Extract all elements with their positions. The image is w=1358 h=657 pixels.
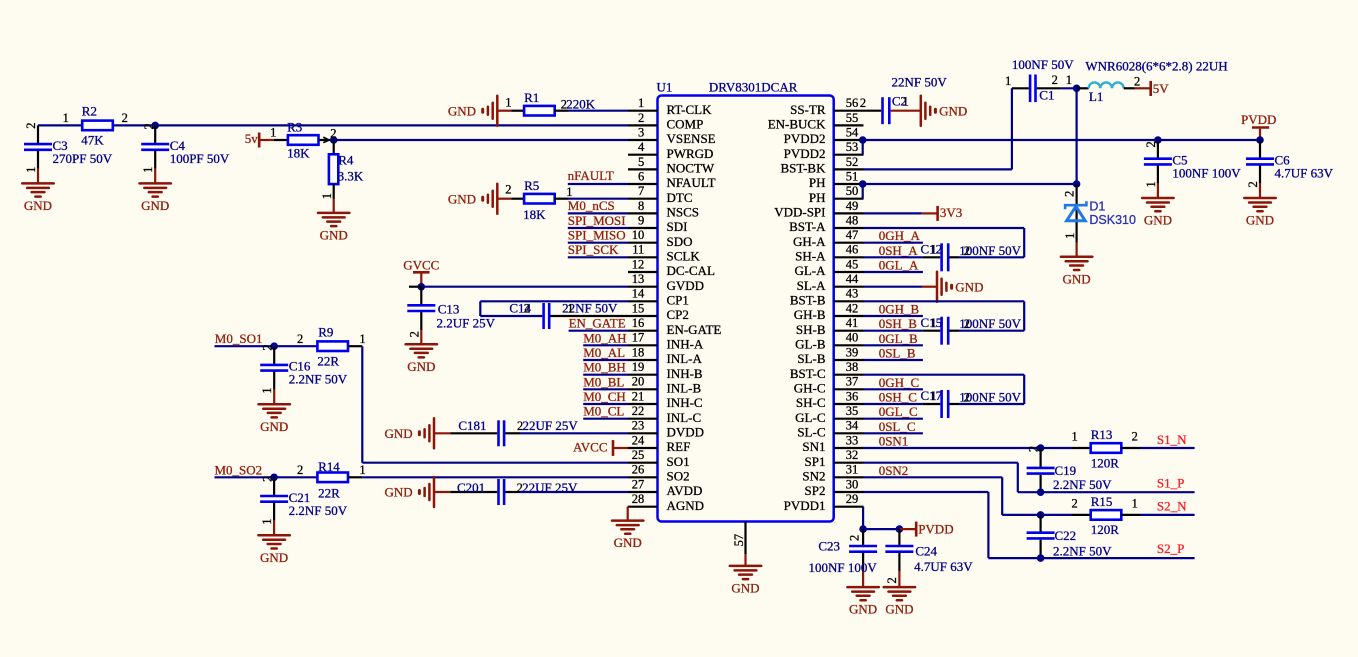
net label 0SN1 (879, 434, 909, 449)
svg-text:1: 1 (1066, 73, 1072, 87)
wire (215, 476, 318, 478)
svg-text:VSENSE: VSENSE (667, 131, 716, 146)
net label 0GL_B (879, 331, 918, 346)
capacitor C201 (434, 479, 578, 505)
svg-text:BST-BK: BST-BK (780, 161, 826, 176)
svg-text:13: 13 (632, 272, 645, 286)
net label M0_nCS (568, 198, 615, 213)
capacitor C2 (860, 75, 947, 125)
svg-text:PWRGD: PWRGD (667, 146, 714, 161)
capacitor C13 (407, 287, 495, 345)
wire (864, 403, 923, 405)
svg-text:49: 49 (846, 199, 859, 213)
net label 0GL_C (879, 404, 918, 419)
wire (569, 330, 628, 332)
ground (922, 272, 983, 302)
svg-text:22UF 25V: 22UF 25V (523, 418, 579, 433)
svg-text:3: 3 (638, 125, 644, 139)
svg-text:M0_BH: M0_BH (583, 360, 626, 375)
svg-text:2: 2 (505, 183, 511, 197)
resistor R15 (1072, 494, 1140, 537)
svg-text:2: 2 (24, 122, 38, 128)
wire (568, 183, 628, 185)
svg-text:0SL_B: 0SL_B (879, 346, 916, 361)
wire (479, 301, 481, 316)
svg-text:DTC: DTC (667, 190, 693, 205)
svg-text:NSCS: NSCS (667, 205, 700, 220)
net label 0SN2 (879, 463, 909, 478)
svg-text:R2: R2 (82, 104, 97, 119)
svg-text:SO1: SO1 (667, 454, 690, 469)
ground (385, 477, 434, 507)
svg-text:20: 20 (632, 375, 645, 389)
svg-text:3.3K: 3.3K (338, 168, 364, 183)
svg-text:0SH_C: 0SH_C (879, 390, 917, 405)
svg-text:1: 1 (24, 167, 38, 173)
net label 0SH_A (879, 243, 919, 258)
svg-text:GND: GND (24, 198, 52, 213)
svg-text:16: 16 (632, 316, 645, 330)
svg-text:GL-B: GL-B (795, 337, 826, 352)
svg-text:M0_CH: M0_CH (583, 389, 626, 404)
capacitor C5 (1142, 140, 1241, 228)
svg-text:PVDD1: PVDD1 (784, 498, 826, 513)
svg-text:2: 2 (261, 344, 275, 350)
svg-text:5: 5 (638, 155, 644, 169)
resistor R5 (497, 178, 572, 222)
svg-text:52: 52 (846, 155, 859, 169)
svg-text:1: 1 (63, 111, 69, 125)
svg-text:REF: REF (667, 439, 691, 454)
wire (1140, 447, 1195, 449)
svg-text:SS-TR: SS-TR (790, 102, 826, 117)
svg-text:INL-A: INL-A (667, 351, 703, 366)
svg-text:9: 9 (638, 213, 644, 227)
wire (583, 359, 628, 361)
svg-text:1: 1 (359, 463, 365, 477)
capacitor C6 (1244, 140, 1333, 228)
svg-text:SCLK: SCLK (667, 249, 701, 264)
svg-text:GND: GND (407, 359, 435, 374)
svg-text:2: 2 (1027, 446, 1041, 452)
ground (448, 96, 497, 126)
wire (864, 300, 1025, 302)
svg-text:22: 22 (632, 404, 645, 418)
svg-text:1: 1 (320, 193, 334, 199)
svg-text:33: 33 (846, 433, 859, 447)
wire (215, 345, 318, 347)
svg-text:CP1: CP1 (667, 293, 689, 308)
svg-text:NOCTW: NOCTW (667, 161, 715, 176)
capacitor C14 (509, 301, 628, 329)
svg-text:GND: GND (448, 103, 476, 118)
svg-text:SH-A: SH-A (795, 249, 826, 264)
svg-text:SL-B: SL-B (797, 351, 826, 366)
svg-text:24: 24 (632, 433, 645, 447)
svg-text:1: 1 (359, 332, 365, 346)
svg-text:2.2NF 50V: 2.2NF 50V (289, 503, 348, 518)
svg-text:0SL_C: 0SL_C (879, 419, 916, 434)
wire (864, 492, 1195, 558)
svg-text:0GL_B: 0GL_B (879, 331, 918, 346)
net label SPI_SCK (568, 242, 619, 257)
wire (863, 139, 1260, 141)
svg-text:L1: L1 (1089, 89, 1103, 104)
ground (318, 213, 349, 243)
svg-text:1: 1 (1063, 233, 1077, 239)
svg-text:25: 25 (632, 448, 645, 462)
svg-text:2: 2 (1246, 181, 1260, 187)
svg-text:EN-BUCK: EN-BUCK (768, 117, 826, 132)
svg-text:1: 1 (1005, 74, 1011, 88)
wire (362, 476, 628, 478)
svg-text:GL-A: GL-A (794, 263, 826, 278)
svg-text:1: 1 (566, 185, 572, 199)
wire (627, 507, 629, 521)
wire (480, 315, 542, 317)
wire (583, 418, 628, 420)
svg-text:100PF 50V: 100PF 50V (170, 151, 230, 166)
svg-text:48: 48 (846, 213, 859, 227)
wire (568, 256, 628, 258)
svg-text:1: 1 (141, 167, 155, 173)
svg-text:18: 18 (632, 345, 645, 359)
resistor R9 (297, 324, 366, 368)
net label M0_CL (583, 404, 624, 419)
wire (1140, 514, 1195, 516)
wire (583, 344, 628, 346)
capacitor C17 (921, 388, 1025, 418)
svg-text:44: 44 (846, 272, 859, 286)
svg-text:10: 10 (632, 228, 645, 242)
net label M0_BH (583, 360, 626, 375)
svg-text:47: 47 (846, 228, 859, 242)
svg-text:GND: GND (448, 191, 476, 206)
svg-text:GND: GND (614, 535, 642, 550)
wire (864, 330, 923, 332)
junction (151, 122, 159, 130)
svg-text:12: 12 (632, 257, 645, 271)
svg-text:54: 54 (846, 125, 859, 139)
junction (859, 180, 867, 188)
capacitor C1 (1005, 57, 1074, 102)
svg-text:0SN1: 0SN1 (879, 434, 909, 449)
svg-text:37: 37 (846, 375, 859, 389)
svg-text:C13: C13 (438, 302, 460, 317)
capacitor C19 (1027, 448, 1113, 492)
svg-text:SDI: SDI (667, 219, 688, 234)
svg-text:VDD-SPI: VDD-SPI (774, 205, 825, 220)
ic U1 DRV8301DCAR (628, 80, 864, 522)
wire (864, 477, 1073, 515)
svg-text:2: 2 (964, 391, 970, 405)
svg-text:U1: U1 (657, 80, 673, 95)
svg-text:AVCC: AVCC (573, 440, 607, 455)
wire (864, 463, 1195, 493)
svg-text:COMP: COMP (667, 117, 704, 132)
ground (921, 96, 967, 126)
svg-text:40: 40 (846, 331, 859, 345)
svg-text:27: 27 (632, 477, 645, 491)
svg-text:M0_AH: M0_AH (583, 330, 626, 345)
svg-text:SL-A: SL-A (797, 278, 827, 293)
wire (863, 507, 899, 529)
svg-text:PVDD2: PVDD2 (784, 131, 826, 146)
svg-text:SPI_MISO: SPI_MISO (568, 228, 626, 243)
svg-text:2: 2 (964, 244, 970, 258)
svg-text:GND: GND (141, 198, 169, 213)
wire (569, 110, 628, 112)
svg-text:R13: R13 (1091, 427, 1113, 442)
ground (730, 566, 761, 596)
resistor R13 (1072, 427, 1140, 471)
svg-text:30: 30 (846, 477, 859, 491)
wire (583, 374, 628, 376)
svg-text:GND: GND (885, 602, 913, 617)
capacitor C24 (885, 529, 973, 587)
ground (385, 418, 434, 448)
wire (864, 256, 923, 258)
svg-text:0GH_A: 0GH_A (879, 228, 921, 243)
svg-text:1: 1 (505, 96, 511, 110)
svg-text:1: 1 (270, 125, 276, 139)
net label EN_GATE (569, 316, 626, 331)
svg-text:S1_N: S1_N (1157, 432, 1187, 447)
svg-text:1: 1 (1072, 429, 1078, 443)
svg-text:GND: GND (385, 485, 413, 500)
svg-text:8: 8 (638, 199, 644, 213)
wire (862, 140, 864, 155)
svg-text:SO2: SO2 (667, 469, 690, 484)
net label M0_AL (583, 345, 625, 360)
svg-text:EN-GATE: EN-GATE (667, 322, 722, 337)
resistor R4 (320, 140, 364, 213)
wire (1023, 301, 1025, 330)
wire (864, 286, 923, 288)
svg-text:1: 1 (260, 519, 274, 525)
net label M0_SO1 (215, 331, 263, 346)
net label M0_CH (583, 389, 626, 404)
net label SPI_MOSI (568, 213, 626, 228)
svg-text:C19: C19 (1055, 463, 1077, 478)
svg-text:2: 2 (297, 332, 303, 346)
wire (480, 300, 628, 302)
svg-text:1: 1 (903, 95, 909, 109)
svg-text:120R: 120R (1091, 456, 1120, 471)
power port GVCC (403, 257, 439, 287)
svg-text:BST-A: BST-A (789, 219, 826, 234)
svg-text:120R: 120R (1091, 522, 1120, 537)
svg-text:0GL_C: 0GL_C (879, 404, 918, 419)
svg-text:S1_P: S1_P (1157, 476, 1184, 491)
wire (864, 271, 923, 273)
junction (1037, 554, 1045, 562)
junction (1144, 136, 1162, 147)
svg-text:31: 31 (846, 463, 859, 477)
svg-text:M0_nCS: M0_nCS (568, 198, 615, 213)
svg-text:41: 41 (846, 316, 859, 330)
svg-text:4.7UF 63V: 4.7UF 63V (1275, 166, 1334, 181)
net label M0_BL (583, 374, 624, 389)
wire (864, 242, 923, 244)
wire (864, 418, 923, 420)
svg-text:INH-C: INH-C (667, 395, 703, 410)
svg-text:C22: C22 (1055, 528, 1077, 543)
svg-text:22R: 22R (318, 486, 340, 501)
svg-text:GH-B: GH-B (794, 307, 826, 322)
wire (864, 359, 923, 361)
svg-text:1: 1 (638, 96, 644, 110)
svg-text:220K: 220K (566, 97, 596, 112)
capacitor C16 (259, 346, 348, 434)
svg-text:14: 14 (632, 287, 645, 301)
wire (864, 344, 923, 346)
svg-text:7: 7 (638, 184, 644, 198)
svg-text:GND: GND (955, 279, 983, 294)
svg-text:INH-B: INH-B (667, 366, 703, 381)
svg-text:0SH_A: 0SH_A (879, 243, 919, 258)
svg-text:R14: R14 (318, 459, 340, 474)
net label S1_P (1157, 476, 1184, 491)
svg-text:0SN2: 0SN2 (879, 463, 909, 478)
diode D1 DSK310 (1063, 184, 1136, 257)
net label 0SL_C (879, 419, 916, 434)
svg-text:0SH_B: 0SH_B (879, 316, 918, 331)
capacitor C181 (434, 418, 578, 446)
svg-text:S2_N: S2_N (1157, 498, 1187, 513)
wire (864, 212, 922, 214)
svg-text:PH: PH (809, 175, 826, 190)
svg-text:R3: R3 (287, 119, 302, 134)
svg-text:32: 32 (846, 448, 859, 462)
svg-text:4.7UF 63V: 4.7UF 63V (914, 559, 973, 574)
svg-text:SL-C: SL-C (797, 425, 825, 440)
net label 0GH_A (879, 228, 921, 243)
wire (568, 227, 628, 229)
svg-text:M0_SO2: M0_SO2 (215, 462, 263, 477)
svg-text:22NF 50V: 22NF 50V (892, 75, 948, 90)
capacitor C3 (22, 122, 112, 213)
svg-text:1: 1 (931, 243, 937, 257)
ground (1061, 257, 1092, 287)
net label S1_N (1157, 432, 1187, 447)
svg-text:17: 17 (632, 331, 645, 345)
svg-text:R4: R4 (338, 152, 354, 167)
svg-text:28: 28 (632, 492, 645, 506)
wire (1023, 375, 1025, 404)
svg-text:2: 2 (860, 96, 866, 110)
svg-text:2: 2 (1144, 141, 1158, 147)
svg-text:GVDD: GVDD (667, 278, 705, 293)
svg-text:RT-CLK: RT-CLK (667, 102, 713, 117)
junction (418, 283, 426, 291)
svg-text:2: 2 (1052, 73, 1058, 87)
wire (520, 432, 628, 434)
wire (862, 184, 864, 199)
net label 0GH_B (879, 302, 920, 317)
svg-text:SPI_SCK: SPI_SCK (568, 242, 619, 257)
net label 0SH_B (879, 316, 918, 331)
svg-text:PVDD: PVDD (918, 522, 953, 537)
svg-text:GVCC: GVCC (403, 257, 439, 272)
net label M0_SO2 (215, 462, 263, 477)
svg-text:GND: GND (385, 426, 413, 441)
wire (583, 388, 628, 390)
junction (1037, 511, 1045, 519)
svg-text:PH: PH (809, 190, 826, 205)
svg-text:21: 21 (632, 389, 645, 403)
svg-text:AGND: AGND (667, 498, 705, 513)
svg-text:DSK310: DSK310 (1089, 213, 1136, 227)
svg-text:GND: GND (1063, 271, 1091, 286)
svg-text:29: 29 (846, 492, 859, 506)
svg-text:26: 26 (632, 463, 645, 477)
svg-text:C1: C1 (1039, 87, 1054, 102)
net label S2_P (1157, 541, 1184, 556)
svg-text:2: 2 (1134, 74, 1140, 88)
svg-text:1: 1 (931, 316, 937, 330)
svg-text:51: 51 (846, 169, 859, 183)
svg-text:270PF 50V: 270PF 50V (53, 151, 113, 166)
ground (406, 344, 437, 374)
resistor R1 (497, 90, 596, 116)
svg-text:SN2: SN2 (802, 469, 825, 484)
junction (1066, 73, 1081, 92)
svg-text:SP1: SP1 (805, 454, 826, 469)
ground (448, 184, 497, 214)
svg-text:GH-A: GH-A (793, 234, 826, 249)
svg-text:2: 2 (142, 123, 156, 129)
svg-text:18K: 18K (523, 207, 546, 222)
ground (847, 587, 878, 617)
junction (323, 126, 337, 144)
svg-text:39: 39 (846, 345, 859, 359)
net label 0SH_C (879, 390, 917, 405)
net label 0GL_A (879, 258, 919, 273)
svg-text:0GH_B: 0GH_B (879, 302, 920, 317)
svg-text:2.2NF 50V: 2.2NF 50V (1053, 543, 1112, 558)
wire (362, 462, 628, 464)
svg-text:1: 1 (1132, 496, 1138, 510)
svg-text:BST-B: BST-B (790, 293, 826, 308)
svg-text:SDO: SDO (667, 234, 693, 249)
junction (859, 136, 867, 144)
svg-text:DRV8301DCAR: DRV8301DCAR (709, 80, 798, 95)
svg-text:SH-C: SH-C (796, 395, 826, 410)
svg-text:18K: 18K (287, 146, 310, 161)
svg-text:19: 19 (632, 360, 645, 374)
wire (864, 432, 923, 434)
svg-text:100NF 100V: 100NF 100V (809, 560, 878, 575)
net label 0SL_B (879, 346, 916, 361)
wire (864, 447, 1073, 449)
svg-text:1: 1 (567, 302, 573, 316)
svg-text:2: 2 (261, 476, 275, 482)
capacitor C23 (809, 529, 878, 587)
power port AVCC (573, 440, 628, 456)
svg-text:2: 2 (1132, 429, 1138, 443)
svg-text:S2_P: S2_P (1157, 541, 1184, 556)
resistor R14 (297, 459, 366, 501)
svg-text:2: 2 (848, 535, 862, 541)
svg-text:2: 2 (1063, 191, 1077, 197)
svg-text:SH-B: SH-B (796, 322, 826, 337)
power port 3V3 (922, 205, 962, 221)
svg-text:2.2NF 50V: 2.2NF 50V (289, 372, 348, 387)
svg-text:2: 2 (1072, 496, 1078, 510)
svg-text:GND: GND (260, 550, 288, 565)
svg-text:GND: GND (849, 602, 877, 617)
